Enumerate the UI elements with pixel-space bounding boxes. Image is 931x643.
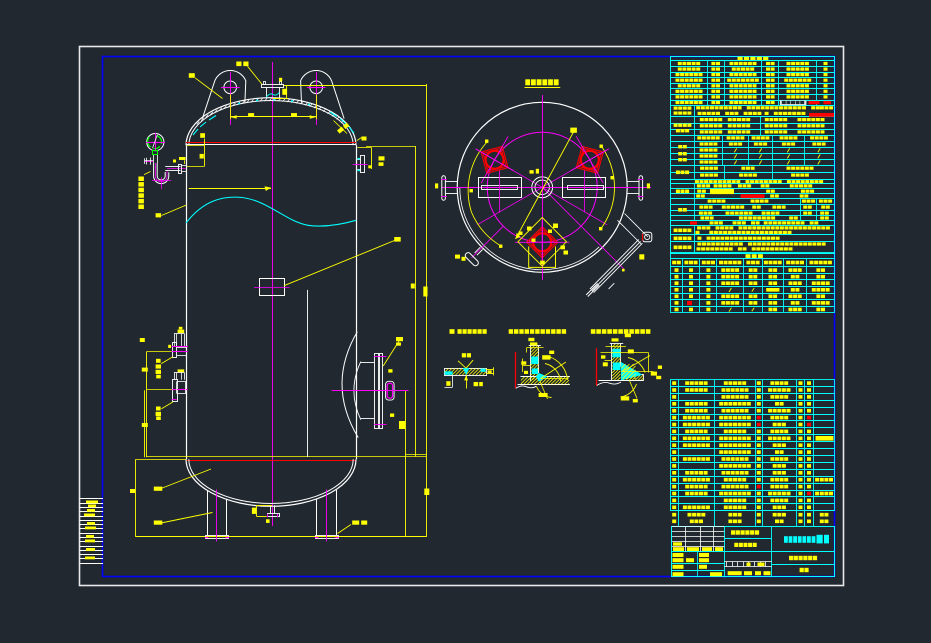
left side flange (top view) [442,176,446,200]
manhole flange bars [375,354,379,429]
manhole projection arc on shell [342,332,358,438]
gauge needle [153,135,158,148]
small f label [279,78,282,82]
weld detail 1 extension lines [452,375,454,387]
weld detail 1 weld bead (cyan) [463,368,470,375]
tech table top rows grid [671,60,835,62]
gauge stem [153,155,155,163]
weld detail 2 lower fan [537,387,552,398]
nozzle projection dim [286,86,288,99]
weld detail 2 shell plate [521,376,570,378]
bottom lug yellow support box [529,247,556,268]
weld detail 2 dims [527,347,544,349]
BOM header row [670,510,835,512]
top nozzle neck [266,87,268,98]
leg label leaders [159,469,212,490]
remarks rows [671,234,835,236]
left nozzle lower riser [174,372,185,374]
vessel inner circle arc [460,187,599,269]
weld detail 2 nozzle wall [530,346,532,381]
weld detail 1 plate [445,369,487,376]
nozzle flange section text [697,136,701,139]
top nozzle flange [262,85,284,88]
bottom tangent line (red) [186,460,356,462]
manhole dim marks [388,369,392,372]
centerline horizontal [441,187,651,189]
bottom head inner arc [189,459,353,503]
gasket section [671,204,835,206]
weld detail 3 dims [606,346,627,348]
bottom lug yellow square [518,218,567,267]
davit support lines [618,220,642,244]
BOM rows text [672,381,676,385]
gauge label leader [144,172,151,175]
davit yellow mark [639,254,644,259]
bottom head outer arc [186,459,356,506]
outer border frame (white) [80,47,844,586]
top head-shell seam line [186,144,356,146]
left nozzle neck (top view) [445,181,457,183]
top head cyan weld dashes [193,129,198,135]
signature area [672,563,725,565]
centerline 150 deg [477,150,607,225]
left nozzle lower neck [177,381,186,383]
yellow dimension arc right [601,146,615,228]
vessel vertical centerline [272,62,274,526]
nozzle table data text [675,268,679,272]
gauge nozzle yellow marks [179,157,186,160]
nozzle table grid [671,259,835,313]
scale row [728,571,742,575]
davit pivot [643,232,652,242]
technical characteristics table frame [671,57,835,254]
left nozzle upper cap [178,330,185,333]
left nozzle lower label [161,402,173,409]
center nozzle circles [532,177,553,198]
davit mid tick [609,283,615,289]
weld detail 2 title [509,329,513,334]
material cell [800,568,804,572]
weld detail 2 break line [516,386,537,388]
drawing number (cyan) [784,536,788,543]
vessel outline circle (top view) [457,102,627,272]
siphon horizontal run to shell [165,170,180,172]
top view title underline [525,87,561,89]
right side flange (top view) [639,176,643,200]
project cell [724,551,771,553]
centerline 45 deg (davit axis) [542,187,624,269]
weld detail 3 weld bead (cyan) [621,362,643,380]
bottom lifting lug (top view) [515,220,569,264]
lug spacing dimension [230,95,232,120]
nozzle table title row [671,253,835,259]
davit end flange [588,285,599,296]
top tangent line (red) [186,142,356,144]
shell left wall [186,145,188,459]
top head crown hatch ticks [197,122,200,125]
lug label M with leader [189,73,195,78]
gauge nozzle flange at shell [179,165,182,174]
gauge valve block [153,151,158,155]
support section [671,172,835,174]
head slope label (rotated) [337,123,349,134]
weld detail 3 break line [597,382,621,385]
upper-left lifting lug (top view) [462,125,527,194]
left nozzle upper neck [177,347,186,349]
centerline 30 deg [477,150,607,225]
siphon cross mark [161,177,163,189]
inner border frame (blue) [103,57,835,577]
yellow dimension arc left [468,142,501,247]
pressure gauge dial [147,134,164,151]
title block frame [672,527,835,577]
right leg label [352,521,359,525]
company name cell [724,538,771,540]
weld detail 1 groove symbol [458,361,466,368]
left nozzle upper label [161,357,173,364]
leader line to top label [516,131,575,239]
manhole neck [361,362,375,364]
davit pivot red tick [642,234,644,241]
weld detail 3 fan arcs [628,358,645,373]
centerline vertical [542,95,544,280]
revision strip rows (left edge) [80,498,104,500]
left nozzle lower cap [178,369,185,372]
left lifting lug [202,70,246,118]
weld detail 1 title [450,329,455,334]
manhole davit handle [386,381,395,400]
revision grid text blobs [673,547,684,551]
centerline 225 deg stub [472,226,504,258]
top head outer arc [186,98,356,146]
nozzle flange section grid [671,141,835,143]
weld detail 2 weld bead (cyan) [536,373,548,382]
weld detail 2 red extension line [515,352,517,389]
single line row [671,225,835,227]
left nozzle upper flange [173,343,177,358]
bottom lug dimension blobs [527,227,532,231]
upper-right lifting lug (top view) [557,125,622,194]
top view title text [525,79,530,85]
weld detail 1 cyan patches [445,371,453,374]
manhole label leader [383,339,400,366]
davit arm (lower right) [590,240,639,290]
right support leg [316,499,318,535]
manhole section [671,188,835,190]
left nozzle lower flange [173,380,178,402]
welding rod section [671,123,835,125]
gauge side valve [145,161,153,163]
left support leg [207,490,209,535]
tech table title text [738,57,743,61]
weld detail 3 red extension line [596,348,598,385]
weld detail 3 nozzle top cap [610,343,623,345]
liquid level wave (cyan) [186,197,356,226]
tech table spec row (double) [671,116,835,118]
sheet boxes row [724,561,771,563]
manhole flange magenta ticks [374,356,386,358]
gauge elevation dimension [187,145,204,147]
level leader lower [156,213,162,217]
small center labels [530,170,534,173]
BOM table frame [671,380,835,511]
BOM grid lines [670,386,835,388]
left dimension vertical lines [146,352,148,458]
liquid level dimension line [189,188,271,190]
weld detail 1 arrow [466,375,468,388]
left nozzle upper riser [174,333,185,335]
top head inner arc [189,101,353,146]
title block revision grid (white) [672,526,725,528]
lower-left nozzle flange (stadium) [464,252,479,267]
right junction yellow glyph [362,137,367,141]
arc arrow marks [485,140,488,143]
right head nozzle flange [361,156,365,173]
right dim line upper tick [411,284,415,289]
top nozzle weld (cyan) [266,93,279,98]
manhole centerline [332,390,409,392]
lug bolt circle (magenta) [487,132,597,242]
dip tube [307,290,309,457]
bottom-left dimension frame [135,459,137,537]
right lifting lug [301,70,345,118]
lower-left nozzle marks [455,255,460,259]
siphon tube (white with magenta centerline) [154,163,169,184]
top dimension line to right [284,85,427,87]
lug plate left (top view) [479,178,522,198]
shell right wall [356,145,358,459]
weld detail 1 right bracket [486,369,493,371]
right head nozzle dims [371,148,373,170]
weld detail 3 nozzle wall [611,344,613,381]
tech table top rows text [678,62,682,65]
bottom drain nozzle [270,505,272,513]
lower dimension horizontals [146,456,427,458]
full width note line [671,183,835,185]
revision strip text blocks [86,501,98,504]
weld detail 2 fan arcs [545,364,561,382]
top nozzle label [236,62,241,67]
weld detail 2 nozzle top cap [529,345,541,347]
crown cyan specks [238,103,240,105]
right nozzle neck (top view) [627,181,639,183]
nozzle table header text [672,261,676,265]
gauge label column [138,177,144,182]
weld detail 3 shell plate [622,374,644,376]
lug plate right (top view) [563,178,606,198]
lower-left nozzle neck [475,247,481,253]
weld detail 3 title [591,329,596,334]
bottom nozzle yellow bracket [256,505,272,507]
internal box label leader [284,241,395,286]
overall height dimension line (right) [426,84,428,537]
drawing title cell [772,551,835,553]
internal distributor box [260,279,285,296]
